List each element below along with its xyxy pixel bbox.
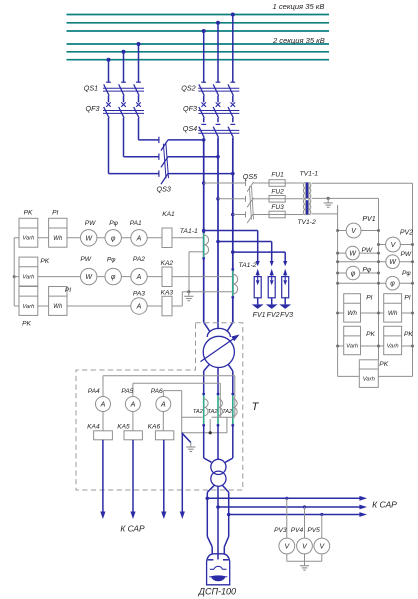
wire QS2-QF3 right [203,96,205,103]
ground transformer box [190,443,192,448]
wire regulator out A [204,364,210,371]
arc furnace DSP-100 shell [207,554,230,585]
svg-text:φ: φ [351,271,356,278]
wire transformer out C [222,485,228,492]
wire row2 [14,276,162,278]
regulator arrow [201,337,237,362]
node CAP tap B [216,505,220,509]
wire PA5 drop [132,383,134,396]
wire PA5 to TA2 [133,382,220,384]
node TA2 return junction [209,431,212,434]
wire TV1-1 secondary top [312,182,413,184]
wire ground branch [182,433,191,443]
voltmeter PV2 [379,244,413,246]
reactive meter PK right-2 [384,326,402,354]
wire CAP line 1 [207,497,360,499]
arrester FV1 [256,261,260,266]
bus section 2 line 1 35kV [67,43,330,45]
node FV tap phase B [216,240,220,244]
svg-text:FU1: FU1 [271,171,284,178]
svg-text:PV3: PV3 [274,527,287,534]
ammeter PA4 [96,397,111,412]
node bus tap QS2 phase B [216,21,220,25]
wire PA4 to TA2 [103,375,235,377]
wire QS3 out pole3 [168,173,233,175]
wire QS3 out pole2 [168,156,218,158]
node TV1 secondary ground [327,197,330,200]
current transformer TA2 phase A [203,394,205,425]
wattmeter PW row2 [81,268,97,284]
wire QS5-FU1 [253,182,269,184]
wire FV2 feed [218,241,272,243]
svg-text:PA4: PA4 [88,388,100,395]
wire row3 [14,305,162,307]
reactive meter PK bottom [359,360,378,388]
wire KA6 output arrow [163,440,165,512]
svg-text:PK: PK [24,210,33,217]
svg-text:PV2: PV2 [400,230,413,237]
node QS5 tap B [216,197,220,201]
svg-text:QS5: QS5 [243,172,258,181]
wire QS2 drop phase C [232,15,234,83]
wattmeter PW row1 [81,230,97,246]
svg-text:φ: φ [390,281,395,288]
fuse FU2 [269,196,285,203]
svg-text:PI: PI [366,294,372,301]
svg-text:PK: PK [404,331,413,338]
wire QS5-FU2 [253,198,269,200]
wire FV1 feed [204,230,258,232]
wire row1 [14,237,162,239]
node CAP tap C [227,513,231,517]
svg-text:Wh: Wh [388,310,398,317]
phase meter Pf row2 [105,268,121,284]
wire TA2-1 bottom terminal [209,419,211,433]
svg-text:FU2: FU2 [271,188,284,195]
svg-text:FU3: FU3 [271,204,284,211]
wire QS3 out pole1 [168,139,204,141]
wire TA1-1 return [189,251,203,253]
svg-text:QF3: QF3 [183,104,197,113]
bus section 1 line 2 35kV [67,22,330,24]
svg-text:PA1: PA1 [130,220,142,227]
bus section 2 line 2 35kV [67,51,330,53]
svg-text:KA5: KA5 [117,424,130,431]
node CAP tap A [206,497,210,501]
wire TA2 terminal link left [182,416,203,418]
wire FV3 feed [233,251,285,253]
reactive meter PK row3 [19,287,38,316]
transformer T primary winding [211,459,226,474]
disconnector QS4 [201,123,206,125]
svg-text:PW: PW [400,251,411,258]
phase meter Pf right-2 [338,282,413,284]
node QS3-QS4 junction C [231,172,235,176]
wire right panel rail 3 [412,205,414,376]
svg-text:Varh: Varh [363,376,375,382]
svg-text:К САР: К САР [372,499,397,509]
svg-text:KA2: KA2 [161,260,174,267]
wire PA6-KA6 [162,412,164,431]
wire PA4-KA4 [102,412,104,431]
wire regulator out B [217,368,219,395]
wire common output arrow [181,433,183,512]
reactive meter PK right-1 [344,326,361,354]
bus section 1 line 3 35kV [67,30,330,32]
wire into transformer C [232,425,234,458]
relay KA3 [162,296,172,316]
wire into transformer B [217,425,219,459]
svg-text:Wh: Wh [53,304,63,310]
wire regulator out C [228,364,233,371]
current transformer TA2 phase C [232,394,234,425]
svg-text:FV3: FV3 [280,312,293,319]
wire QS2 drop phase B [217,23,219,82]
current transformer TA1-2 [232,269,234,297]
node PV4 tap [303,505,306,508]
wire left panel rail [13,238,15,306]
relay KA2 [162,267,172,287]
wire PA6 corner [163,390,181,392]
svg-text:QS3: QS3 [157,185,171,194]
wire QF3 left to QS3 pole2 [123,118,125,157]
node FV tap phase A [202,229,206,233]
transformer T secondary winding [211,471,226,486]
wire main phase C vertical [232,138,234,322]
svg-text:T: T [252,401,260,413]
svg-text:PW: PW [361,247,372,254]
wire QS1-QF3 left [108,96,110,103]
svg-text:TA2: TA2 [193,409,204,415]
node bus tap QS1 phase B [122,50,126,54]
node PV3 tap [285,497,288,500]
wire Varh row right [338,345,413,347]
svg-text:Varh: Varh [22,236,34,242]
ammeter PA5 [125,397,140,412]
wire bottom PK row [338,375,360,377]
arc symbol inside furnace [210,568,214,570]
ground CT secondary [188,292,190,297]
arrester FV2 [270,261,274,266]
voltmeter PV4 [297,538,313,554]
svg-text:Wh: Wh [53,236,63,242]
wire TV1-2 secondary bottom [312,213,338,215]
wire TA2 terminal link right [212,416,235,418]
dashed boundary transformer unit [76,323,243,490]
fuse FU3 [269,211,285,218]
wire PV common [286,554,288,561]
svg-text:TA2: TA2 [222,409,233,415]
wire QS1 drop phase A [108,60,110,82]
svg-text:QS4: QS4 [183,124,197,133]
svg-text:Pφ: Pφ [109,220,118,227]
svg-text:PI: PI [65,287,71,294]
relay KA1 [162,228,172,248]
svg-text:К САР: К САР [120,524,145,534]
svg-text:KA1: KA1 [162,211,175,218]
svg-text:A: A [130,402,136,409]
svg-text:PK: PK [22,321,31,328]
svg-text:Pφ: Pφ [362,266,371,273]
bus section 1 line 1 35kV [67,14,330,16]
voltmeter PV3 [279,538,295,554]
svg-text:A: A [160,402,166,409]
wire electrode B [217,537,219,560]
wire KA3 up to common [172,305,182,307]
relay KA4 [94,431,113,440]
wire phase C into regulator [227,322,233,331]
wire TA1-2 return [182,291,232,293]
bus section 2 line 3 35kV [67,59,330,61]
breaker QF3 right [201,102,206,106]
wire into transformer A [203,425,205,458]
regulator winding arc [207,328,230,337]
svg-text:PK: PK [379,361,388,368]
wire QS1 drop phase B [123,52,125,82]
svg-text:TV1-1: TV1-1 [300,171,319,178]
svg-text:A: A [136,304,142,311]
wire CAP line 3 [229,514,360,516]
voltage transformer TV1-1 TV1-2 [304,183,306,215]
wire PA5-KA5 [132,412,134,431]
wire QF3 left to QS3 pole3 [108,118,110,174]
svg-text:A: A [100,402,106,409]
svg-text:PI: PI [404,294,410,301]
svg-text:PA6: PA6 [151,388,163,395]
relay KA6 [155,431,173,440]
wire QS2 drop phase A [203,31,205,82]
wire main phase A vertical [203,138,205,322]
node bus tap QS1 phase C [137,42,141,46]
wire KA4 output arrow [102,440,104,512]
phase meter Pf right-1 [338,272,379,274]
energy meter PI row1 [49,218,67,247]
reactive meter PK row1 [19,218,38,247]
ammeter PA1 [131,230,147,246]
svg-text:KA6: KA6 [148,424,161,431]
disconnector QS2 [201,81,206,83]
wire PA4 drop [102,376,104,397]
wire right panel rail 1 [337,214,339,377]
svg-text:TA2: TA2 [208,409,219,415]
molten bath [212,576,225,581]
svg-text:FV2: FV2 [267,312,280,319]
breaker QF3 left [106,102,111,106]
voltmeter PV5 [314,538,330,554]
disconnector QS3 [158,137,160,143]
svg-text:ДСП-100: ДСП-100 [198,587,236,597]
wattmeter PW right-1 [338,252,379,254]
phase meter Pf row1 [105,230,121,246]
wire KA2 to TA1-2 [172,276,232,278]
svg-text:φ: φ [111,235,116,242]
energy meter PI right-2 [384,294,402,322]
wire QS5 tap B [218,198,246,200]
svg-text:Varh: Varh [346,343,358,349]
wire PA6 drop [162,391,164,397]
node PV5 tap [320,513,323,516]
svg-text:1 секция 35 кВ: 1 секция 35 кВ [273,2,325,11]
energy meter PI row3 [49,287,67,316]
current transformer TA1-1 [203,232,205,259]
svg-text:KA4: KA4 [87,424,100,431]
wire FU1-TV1 [285,182,303,184]
svg-text:PV1: PV1 [362,216,375,223]
node bus tap QS1 phase A [107,58,111,62]
wire TV1 secondary mid [312,197,379,199]
reactive meter PK row2 [19,257,38,286]
svg-text:2 секция 35 кВ: 2 секция 35 кВ [272,36,325,45]
current transformer TA2 phase B [217,394,219,425]
ammeter PA2 [131,268,147,284]
wire main phase B vertical [217,138,219,322]
relay KA5 [124,431,142,440]
energy meter PI right-1 [344,294,361,322]
wire transformer out A [207,485,214,492]
svg-text:QS1: QS1 [84,84,98,93]
ground TV1 secondary [327,198,329,203]
ammeter PA6 [156,397,171,412]
wire transformer out B [217,486,219,536]
wire QS5 tap A [204,182,246,184]
node left rail junction [13,275,16,278]
svg-text:QS2: QS2 [181,84,195,93]
node FV tap phase C [231,250,235,254]
wire TA2-3 drop [226,417,228,433]
svg-text:Pφ: Pφ [107,256,116,263]
svg-text:QF3: QF3 [86,104,100,113]
wire QS5-FU3 [253,214,269,216]
svg-text:TA1-2: TA1-2 [238,262,256,269]
node bus tap QS2 phase A [202,29,206,33]
wattmeter PW right-2 [338,261,413,263]
node QS5 tap A [202,181,206,185]
fuse FU1 [269,180,285,187]
node bus tap QS2 phase C [231,13,235,17]
svg-text:PW: PW [85,220,96,227]
wire right panel rail 2 [378,205,380,360]
svg-text:PA2: PA2 [133,256,145,263]
ammeter PA3 [131,298,147,314]
wire phase B into regulator [217,322,219,329]
ground PV group [304,561,306,566]
wire QF3 left to QS3 pole1 [138,118,140,140]
svg-text:PK: PK [366,331,375,338]
svg-text:PA3: PA3 [133,291,145,298]
wire electrode A [207,537,212,547]
wire PV4 drop [304,507,306,538]
disconnector QS1 [106,81,111,83]
svg-text:Varh: Varh [387,343,399,349]
svg-text:Varh: Varh [22,304,34,310]
wire KA1 to TA1-1 [172,237,203,239]
svg-text:TV1-2: TV1-2 [297,219,316,226]
node QS5 tap C [231,213,235,217]
svg-text:PI: PI [52,210,58,217]
svg-text:TA1-1: TA1-1 [180,228,198,235]
voltmeter PV1 [338,230,379,232]
svg-text:PV5: PV5 [307,527,320,534]
svg-text:Wh: Wh [347,310,357,317]
svg-text:φ: φ [111,274,116,281]
arrester FV3 [283,261,287,266]
svg-text:Pφ: Pφ [402,270,411,277]
svg-text:FV1: FV1 [253,312,266,319]
wire TA2 return bus [182,432,227,434]
regulator T tap changer circle [203,336,234,367]
node QS3-QS4 junction B [216,155,220,159]
wire KA5 output arrow [132,440,134,512]
svg-text:KA3: KA3 [161,290,174,297]
svg-text:PK: PK [40,258,49,265]
node QS3-QS4 junction A [202,138,206,142]
svg-text:A: A [136,274,142,281]
svg-text:PV4: PV4 [291,527,304,534]
wire phase A into regulator [204,322,210,331]
svg-text:Varh: Varh [22,274,34,280]
wire QF3-QS4 [203,118,205,122]
node CT common point [187,290,190,293]
wire FU2-TV1 [285,198,303,200]
wire electrode C [224,537,228,547]
svg-text:PW: PW [80,256,91,263]
wire PV3 drop [286,498,288,538]
wire FU3-TV1 [285,214,303,216]
wire Wh row right [338,312,413,314]
wire PV5 drop [321,515,323,539]
svg-text:PA5: PA5 [121,388,133,395]
svg-text:A: A [136,235,142,242]
wire QS5 tap C [233,214,246,216]
wire CAP line 2 [218,506,360,508]
wire QS1 drop phase C [138,44,140,82]
disconnector QS5 [245,180,247,186]
